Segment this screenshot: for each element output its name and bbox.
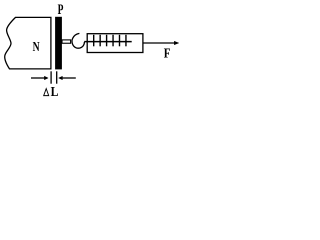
block N (wall with torn wavy left edge) [5,17,51,69]
svg-text:L: L [51,85,59,100]
svg-text:F: F [164,46,171,61]
dimension arrow left (points right) [31,77,45,79]
plate P [55,17,62,70]
link tab on plate [62,40,71,43]
spring box [87,34,143,53]
spring midline wire [84,41,132,43]
dimension tick right [56,71,58,83]
force arrow line [143,42,175,44]
spring coil ticks [94,35,126,47]
label delta (triangle) of delta L [44,89,49,96]
svg-text:N: N [33,40,40,55]
dimension arrow right (points left) [59,76,63,79]
force arrow head [174,41,178,44]
hook [72,33,84,48]
svg-text:P: P [58,2,64,18]
dimension tick left [50,71,52,83]
